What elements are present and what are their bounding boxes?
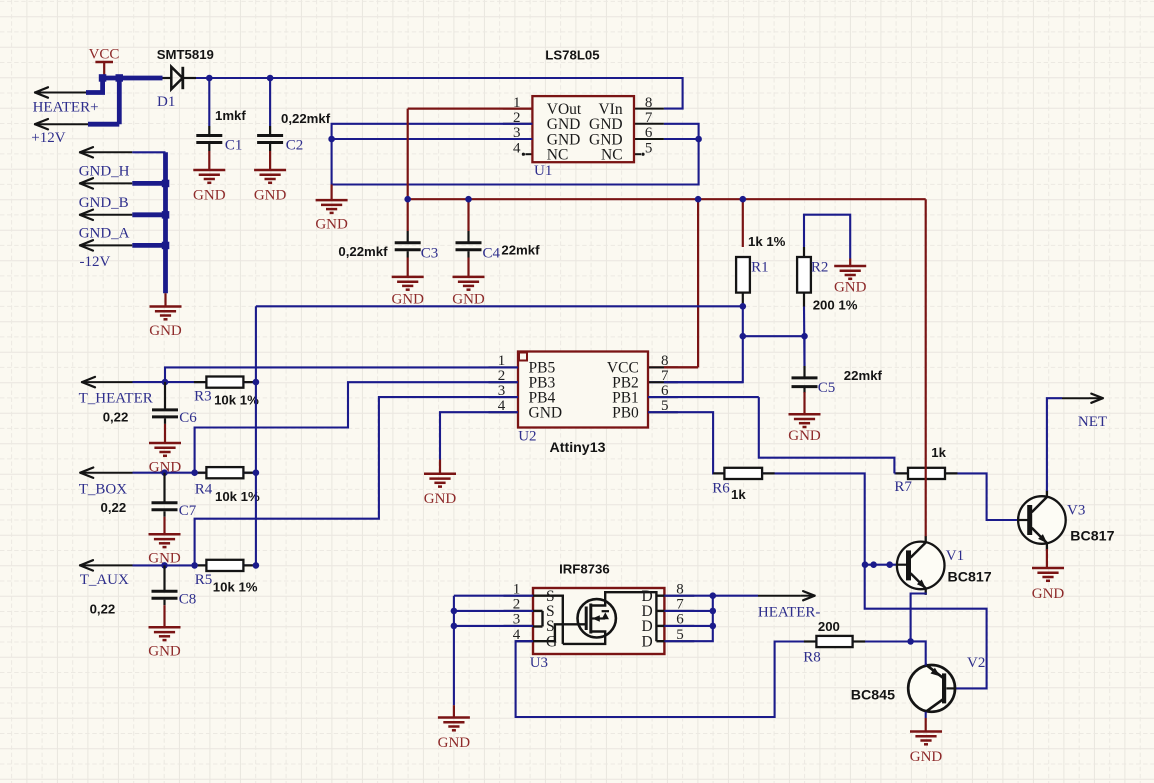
svg-text:8: 8 <box>645 95 653 111</box>
svg-text:GND: GND <box>193 188 226 204</box>
svg-text:7: 7 <box>676 597 684 613</box>
svg-text:R3: R3 <box>194 389 212 405</box>
svg-text:G: G <box>546 634 557 651</box>
svg-text:Attiny13: Attiny13 <box>550 440 606 456</box>
svg-text:GND: GND <box>438 735 471 751</box>
svg-text:GND: GND <box>529 405 563 422</box>
svg-text:1: 1 <box>498 353 506 369</box>
svg-text:R7: R7 <box>894 479 912 495</box>
svg-text:PB0: PB0 <box>612 405 639 422</box>
svg-text:GND: GND <box>391 292 424 308</box>
svg-text:GND: GND <box>452 292 485 308</box>
svg-text:GND: GND <box>315 216 348 232</box>
svg-text:HEATER-: HEATER- <box>758 605 821 621</box>
svg-text:BC845: BC845 <box>851 687 895 703</box>
svg-text:C8: C8 <box>179 592 197 608</box>
svg-text:R8: R8 <box>803 649 821 665</box>
svg-text:GND_A: GND_A <box>79 225 130 241</box>
svg-text:6: 6 <box>676 612 684 628</box>
svg-text:C3: C3 <box>421 246 439 262</box>
svg-text:LS78L05: LS78L05 <box>545 48 599 63</box>
svg-text:T_AUX: T_AUX <box>80 572 129 588</box>
svg-text:1: 1 <box>513 95 521 111</box>
svg-text:7: 7 <box>645 110 653 126</box>
svg-text:R1: R1 <box>751 259 769 275</box>
svg-text:GND: GND <box>910 749 943 765</box>
svg-text:1k: 1k <box>931 445 946 460</box>
svg-text:3: 3 <box>498 383 506 399</box>
svg-text:VCC: VCC <box>89 46 120 62</box>
svg-text:0,22mkf: 0,22mkf <box>281 111 331 126</box>
svg-text:U2: U2 <box>518 429 536 445</box>
svg-text:4: 4 <box>498 398 506 414</box>
svg-text:3: 3 <box>513 612 521 628</box>
svg-text:2: 2 <box>513 110 521 126</box>
svg-text:T_BOX: T_BOX <box>79 482 128 498</box>
svg-text:1k 1%: 1k 1% <box>748 234 786 249</box>
svg-text:4: 4 <box>513 627 521 643</box>
svg-text:7: 7 <box>661 368 669 384</box>
svg-text:0,22: 0,22 <box>101 500 127 515</box>
svg-text:10k 1%: 10k 1% <box>215 489 260 504</box>
svg-text:GND: GND <box>254 188 287 204</box>
svg-text:T_HEATER: T_HEATER <box>79 391 153 407</box>
svg-text:C4: C4 <box>483 246 501 262</box>
svg-text:GND: GND <box>148 644 181 660</box>
svg-text:BC817: BC817 <box>948 570 992 586</box>
svg-text:U3: U3 <box>530 655 548 671</box>
svg-text:HEATER+: HEATER+ <box>33 100 99 116</box>
svg-text:0,22mkf: 0,22mkf <box>338 244 388 259</box>
svg-text:GND: GND <box>788 428 821 444</box>
svg-text:C1: C1 <box>225 138 243 154</box>
svg-text:R6: R6 <box>712 481 730 497</box>
svg-text:C2: C2 <box>286 138 304 154</box>
svg-text:-12V: -12V <box>80 254 111 270</box>
svg-text:V3: V3 <box>1067 502 1085 518</box>
svg-text:200: 200 <box>818 619 840 634</box>
svg-text:2: 2 <box>513 597 521 613</box>
svg-text:R2: R2 <box>811 259 829 275</box>
svg-text:NC: NC <box>547 147 569 164</box>
svg-text:GND: GND <box>149 323 182 339</box>
svg-text:6: 6 <box>645 125 653 141</box>
svg-text:R4: R4 <box>195 482 213 498</box>
svg-text:5: 5 <box>661 398 669 414</box>
svg-text:C6: C6 <box>179 410 197 426</box>
svg-text:BC817: BC817 <box>1070 529 1114 545</box>
svg-text:200 1%: 200 1% <box>813 297 858 312</box>
svg-text:10k 1%: 10k 1% <box>214 392 259 407</box>
svg-text:V1: V1 <box>946 548 964 564</box>
svg-text:5: 5 <box>676 627 684 643</box>
svg-text:C5: C5 <box>818 380 836 396</box>
svg-text:C7: C7 <box>179 503 197 519</box>
svg-text:GND_H: GND_H <box>79 163 130 179</box>
svg-text:3: 3 <box>513 125 521 141</box>
svg-text:+12V: +12V <box>31 130 65 146</box>
svg-text:22mkf: 22mkf <box>501 242 540 257</box>
svg-text:10k 1%: 10k 1% <box>213 580 258 595</box>
svg-text:NET: NET <box>1078 414 1107 430</box>
svg-text:8: 8 <box>661 353 669 369</box>
svg-text:6: 6 <box>661 383 669 399</box>
svg-text:22mkf: 22mkf <box>844 368 883 383</box>
svg-text:5: 5 <box>645 140 653 156</box>
svg-text:0,22: 0,22 <box>103 410 129 425</box>
svg-text:U1: U1 <box>534 163 552 179</box>
svg-text:D1: D1 <box>157 94 175 110</box>
svg-text:GND_B: GND_B <box>79 195 129 211</box>
svg-text:1: 1 <box>513 582 521 598</box>
svg-text:GND: GND <box>424 491 457 507</box>
svg-text:D: D <box>641 634 652 651</box>
svg-text:4: 4 <box>513 140 521 156</box>
svg-text:8: 8 <box>676 582 684 598</box>
svg-text:V2: V2 <box>967 655 985 671</box>
svg-text:R5: R5 <box>195 572 213 588</box>
svg-text:GND: GND <box>834 279 867 295</box>
svg-text:2: 2 <box>498 368 506 384</box>
svg-text:1k: 1k <box>731 487 746 502</box>
svg-text:SMT5819: SMT5819 <box>157 47 214 62</box>
svg-text:1mkf: 1mkf <box>215 108 246 123</box>
svg-text:IRF8736: IRF8736 <box>559 561 610 576</box>
svg-text:0,22: 0,22 <box>90 601 116 616</box>
svg-text:GND: GND <box>1032 586 1065 602</box>
svg-text:NC: NC <box>601 147 623 164</box>
